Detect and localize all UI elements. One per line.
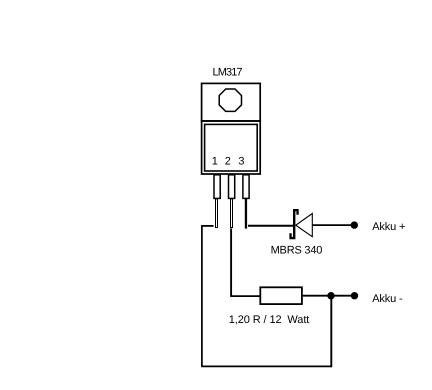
svg-text:3: 3 xyxy=(238,155,244,167)
svg-text:Akku -: Akku - xyxy=(372,293,403,305)
wire diode to Akku+ terminal xyxy=(312,224,354,226)
wire bottom rail xyxy=(201,365,331,367)
IC U1 TO-220 tab outline xyxy=(202,83,261,121)
diode D1 anode triangle xyxy=(296,214,313,237)
svg-text:Akku +: Akku + xyxy=(372,221,405,233)
diode D1 schottky cathode bar with hooks xyxy=(289,209,298,239)
pin 2 wide lead xyxy=(229,175,235,199)
pin 2 narrow lead xyxy=(230,199,233,229)
wire right rail vertical to Akku- junction xyxy=(330,296,332,368)
wire pin 3 to diode cathode xyxy=(248,225,293,227)
pin 1 wide lead xyxy=(214,175,220,199)
IC U1 mounting hole xyxy=(219,89,241,111)
svg-text:1: 1 xyxy=(212,155,218,167)
wire pin1 to left rail xyxy=(202,225,214,227)
junction dot Akku- rail xyxy=(327,292,334,299)
wire junction to Akku- terminal xyxy=(331,295,355,297)
wire pin 2 down xyxy=(230,228,232,296)
IC U1 body outer outline xyxy=(202,121,261,174)
wire pin 2 to resistor xyxy=(230,295,260,297)
wire left rail vertical xyxy=(201,225,203,366)
svg-text:2: 2 xyxy=(225,155,231,167)
pin 3 wide lead xyxy=(243,175,249,199)
svg-text:LM317: LM317 xyxy=(213,67,243,79)
wire resistor to Akku- junction xyxy=(302,295,331,297)
IC U1 body inner outline xyxy=(205,124,258,171)
pin 3 narrow lead xyxy=(245,198,247,228)
pin 1 narrow lead xyxy=(215,199,218,229)
terminal dot Akku- xyxy=(351,292,358,299)
resistor R1 body xyxy=(260,287,302,304)
terminal dot Akku+ xyxy=(351,221,358,228)
svg-text:MBRS 340: MBRS 340 xyxy=(271,244,323,256)
svg-text:1,20 R / 12 Watt: 1,20 R / 12 Watt xyxy=(229,314,309,326)
